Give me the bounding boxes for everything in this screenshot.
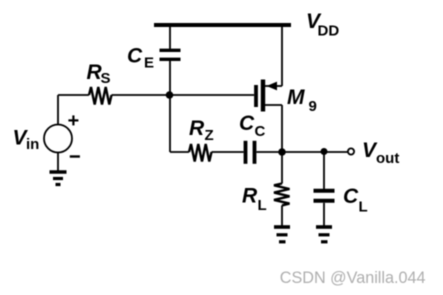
svg-text:L: L xyxy=(258,197,267,214)
svg-text:CSDN @Vanilla.044: CSDN @Vanilla.044 xyxy=(280,269,426,287)
svg-text:in: in xyxy=(26,136,39,153)
svg-text:out: out xyxy=(376,150,399,167)
svg-text:R: R xyxy=(189,117,205,140)
svg-text:Z: Z xyxy=(205,127,214,144)
svg-text:L: L xyxy=(359,199,368,216)
svg-text:C: C xyxy=(239,112,255,135)
svg-text:9: 9 xyxy=(309,98,317,115)
svg-text:C: C xyxy=(127,45,143,68)
svg-text:R: R xyxy=(242,185,258,208)
svg-text:C: C xyxy=(255,123,266,140)
svg-text:M: M xyxy=(287,86,305,109)
svg-text:E: E xyxy=(144,55,154,72)
svg-text:DD: DD xyxy=(318,23,340,40)
svg-text:S: S xyxy=(101,70,111,87)
svg-text:C: C xyxy=(343,185,359,208)
